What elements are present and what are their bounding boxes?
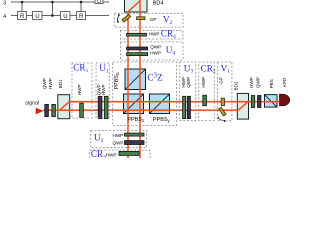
svg-text:R: R <box>20 14 25 20</box>
svg-text:HWP: HWP <box>113 133 124 138</box>
svg-text:QWP: QWP <box>113 140 124 145</box>
svg-text:HWP: HWP <box>77 84 82 95</box>
svg-text:HWP: HWP <box>150 51 161 56</box>
svg-text:QWP: QWP <box>42 78 47 89</box>
svg-text:APD: APD <box>282 77 287 87</box>
svg-text:QWP: QWP <box>255 77 260 88</box>
svg-text:GP: GP <box>218 77 223 84</box>
svg-text:PPBSy: PPBSy <box>153 117 170 123</box>
svg-text:U: U <box>97 0 101 5</box>
svg-text:GP: GP <box>150 17 157 22</box>
svg-text:3: 3 <box>3 1 6 7</box>
svg-text:QWP: QWP <box>150 45 161 50</box>
svg-text:PBS: PBS <box>269 79 274 88</box>
svg-text:HWP: HWP <box>106 152 117 157</box>
svg-text:PPBSS: PPBSS <box>114 72 120 89</box>
svg-text:BD4: BD4 <box>153 1 164 7</box>
svg-text:HWP: HWP <box>201 77 206 88</box>
svg-text:BD1: BD1 <box>58 79 63 88</box>
svg-text:U: U <box>35 14 39 20</box>
svg-text:U: U <box>63 14 67 20</box>
svg-text:HWP: HWP <box>101 84 106 95</box>
svg-text:HWP: HWP <box>249 77 254 88</box>
svg-text:R: R <box>79 14 84 20</box>
svg-text:BD2: BD2 <box>234 81 239 90</box>
svg-text:4: 4 <box>3 14 6 20</box>
svg-text:HWP: HWP <box>149 32 160 37</box>
svg-text:QWP: QWP <box>186 77 191 88</box>
svg-text:signal: signal <box>25 101 39 107</box>
svg-text:HWP: HWP <box>48 78 53 89</box>
svg-text:PPBS1: PPBS1 <box>127 117 144 123</box>
